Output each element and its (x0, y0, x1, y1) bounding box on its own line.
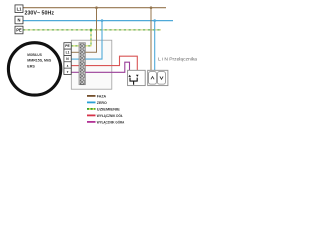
svg-text:WYŁĄCZNIK GÓRA: WYŁĄCZNIK GÓRA (97, 119, 125, 124)
down arrow (136, 75, 139, 77)
switch S1 pushbutton box (128, 70, 146, 85)
node L switch junction (150, 6, 153, 9)
node PE junction (90, 29, 93, 32)
terminal N (15, 16, 23, 24)
svg-text:L1: L1 (17, 6, 23, 11)
wire N neutral bus (blue) (23, 20, 173, 22)
svg-text:ZERO: ZERO (97, 101, 107, 105)
node L1 junction (95, 6, 98, 9)
wire PE drop to strip (yellow+green dashed) (85, 30, 91, 46)
enclosure junction box (71, 40, 112, 89)
motor M1 (tubular motor circle) (8, 43, 60, 95)
wire PE motor lead (yellow+green dashes) (71, 45, 79, 47)
wire N motor lead (blue) (71, 58, 79, 60)
motor terminal block PE/L1/N/up/down (64, 43, 71, 75)
wire up-switch run (red) (85, 56, 137, 75)
svg-text:ERS: ERS (27, 65, 35, 69)
terminal L1 (15, 5, 23, 13)
svg-text:230V~ 50Hz: 230V~ 50Hz (25, 11, 55, 17)
svg-text:FAZA: FAZA (97, 94, 107, 98)
svg-text:MMR15S, M6S: MMR15S, M6S (27, 59, 52, 63)
legend UZIEMIENIE (87, 107, 121, 111)
svg-text:L i N Przełącznika: L i N Przełącznika (158, 56, 198, 61)
svg-text:PE: PE (16, 28, 22, 33)
switch S2 wall switch box (148, 70, 168, 85)
svg-text:UZIEMIENIE: UZIEMIENIE (97, 107, 121, 111)
legend WYLACZNIK DOL (87, 113, 124, 118)
svg-text:▲: ▲ (66, 63, 69, 67)
terminal PE (15, 26, 23, 34)
wire L1 phase bus (brown) (23, 7, 166, 9)
legend ZERO (87, 101, 107, 105)
wire down motor lead (magenta) (71, 71, 79, 73)
wire PE earth bus (green dashes) (23, 29, 161, 31)
up arrow (128, 75, 131, 77)
svg-text:WYŁĄCZNIK DÓŁ: WYŁĄCZNIK DÓŁ (97, 113, 124, 118)
wire L1 motor lead (brown) (71, 51, 79, 53)
wire L1 drop to strip (brown) (85, 8, 96, 53)
wire PE earth bus (yellow base) (23, 29, 161, 31)
linkage (130, 78, 137, 85)
node N switch junction (153, 19, 156, 22)
svg-text:L1: L1 (66, 51, 70, 55)
wire N drop to switch (blue) (154, 21, 156, 71)
wire N drop to strip (blue) (85, 21, 102, 60)
svg-text:MOBILUS: MOBILUS (27, 53, 42, 57)
wire down-switch run (magenta) (85, 62, 129, 75)
svg-text:N: N (18, 18, 21, 23)
wire up motor lead (red) (71, 65, 79, 67)
legend WYLACZNIK GORA (87, 119, 125, 124)
svg-text:▼: ▼ (66, 70, 69, 74)
connector strip X1 (79, 43, 85, 85)
wire L drop to switch (brown) (150, 8, 152, 71)
node N junction (101, 19, 104, 22)
legend FAZA (87, 94, 107, 98)
